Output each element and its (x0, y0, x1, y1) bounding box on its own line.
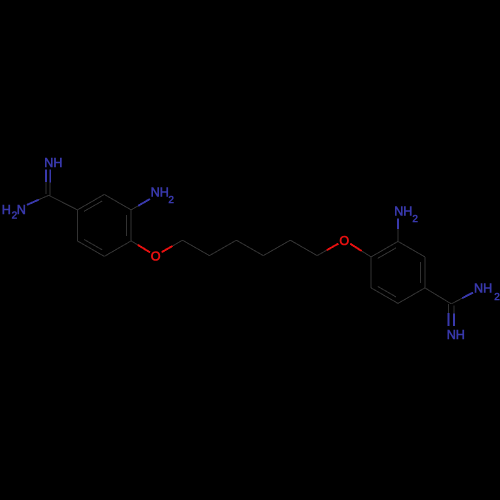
bond NH2-ring vertical (right) (397, 219, 399, 229)
bond chain C6-O2 (317, 250, 327, 255)
bond O2-ring (right) (350, 244, 362, 251)
svg-text:O: O (339, 234, 349, 248)
left benzene ring edges (77, 194, 104, 210)
bond C1-NH2 (right amidine) (451, 298, 462, 304)
bond H2N-C1 (27, 200, 39, 205)
hexamethylene chain bonds (183, 240, 210, 255)
svg-text:NH: NH (151, 186, 169, 200)
svg-text:O: O (151, 249, 161, 263)
svg-text:2: 2 (168, 195, 174, 206)
svg-text:H: H (2, 203, 11, 217)
svg-text:NH: NH (394, 205, 412, 219)
bond ring-NH2 (left) (131, 206, 138, 210)
svg-text:2: 2 (494, 292, 500, 303)
double bond C1=NH (49, 170, 51, 183)
bond C1-ring (49, 195, 78, 210)
bond ring-O1 (131, 241, 138, 245)
right benzene ring edges (371, 241, 398, 257)
svg-text:NH: NH (447, 328, 465, 342)
svg-text:NH: NH (474, 281, 492, 295)
svg-text:NH: NH (44, 156, 62, 170)
svg-text:2: 2 (412, 214, 418, 225)
right ring aromatic inner lines (378, 248, 396, 259)
left ring aromatic inner lines (84, 201, 102, 212)
svg-text:N: N (17, 203, 26, 217)
bond O1-chain C1 (162, 246, 173, 252)
bond ring-C1 (right amidine) (425, 288, 451, 304)
double bond C1=NH (right) (453, 305, 455, 313)
